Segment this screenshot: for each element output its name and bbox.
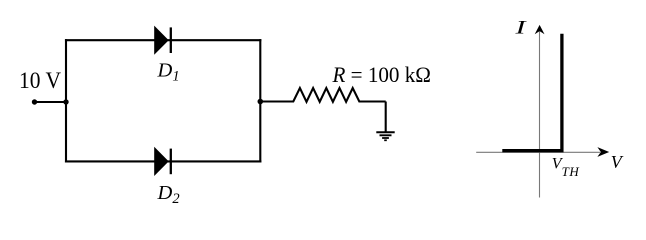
- diode D2: [154, 147, 171, 176]
- svg-text:I: I: [514, 18, 528, 39]
- curve: ideal diode i-v characteristic: [502, 34, 562, 151]
- resistor R zigzag: [260, 88, 385, 102]
- node: output junction dot: [258, 99, 264, 105]
- wire: bottom branch: [66, 160, 260, 162]
- wire: left branch: [65, 40, 67, 161]
- svg-text:R = 100 kΩ: R = 100 kΩ: [332, 62, 431, 87]
- svg-text:VTH: VTH: [552, 155, 580, 179]
- wire: top branch: [66, 39, 260, 41]
- ground: [376, 132, 394, 140]
- wire: input stub: [35, 101, 67, 103]
- svg-text:D1: D1: [157, 60, 180, 85]
- diode D1: [154, 26, 171, 55]
- wire: resistor to ground: [385, 102, 387, 133]
- node: junction dot on left branch: [63, 99, 68, 104]
- node: input terminal dot: [32, 99, 37, 104]
- graph: V axis: [476, 147, 609, 157]
- graph: I axis: [535, 25, 545, 198]
- svg-text:10 V: 10 V: [19, 68, 61, 94]
- svg-text:D2: D2: [157, 182, 180, 207]
- svg-text:V: V: [611, 152, 624, 172]
- wire: right branch: [259, 40, 261, 161]
